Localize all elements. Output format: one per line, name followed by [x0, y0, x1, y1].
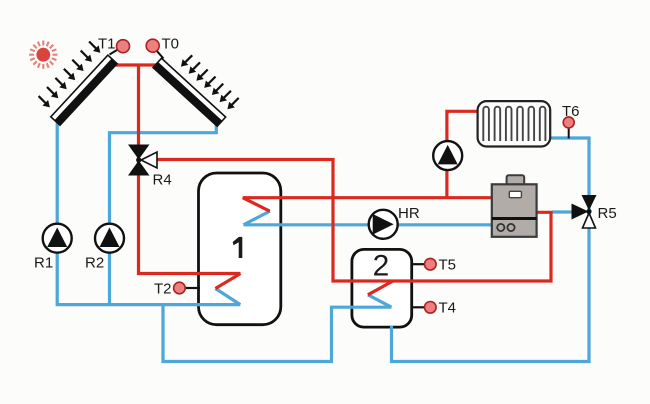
sensor T0 — [146, 36, 179, 59]
sensor T2 — [154, 281, 200, 298]
svg-text:T1: T1 — [98, 36, 116, 53]
pump R2 — [85, 224, 124, 272]
svg-text:T6: T6 — [562, 103, 580, 120]
svg-text:R5: R5 — [598, 205, 617, 222]
wire: red boiler supply to tank1 top coil — [243, 196, 492, 199]
wire: blue pipe right collector to pump R2 — [110, 122, 217, 305]
svg-text:T5: T5 — [439, 257, 457, 274]
valve R4 — [128, 145, 172, 189]
tank 1 top coil blue diagonal — [244, 211, 270, 225]
boiler — [492, 175, 537, 237]
solar collector right — [153, 58, 226, 126]
svg-text:2: 2 — [373, 250, 390, 283]
tank 2 — [352, 249, 412, 327]
valve R5 — [572, 195, 617, 228]
radiator pump — [433, 141, 462, 170]
svg-text:R1: R1 — [34, 255, 53, 272]
svg-text:HR: HR — [398, 205, 420, 222]
tank 1 bottom coil red diagonal — [215, 274, 240, 289]
wire: red radiator branch through pump — [447, 111, 478, 197]
sensor T1 — [98, 36, 130, 55]
wire: blue tank2 coil exit to bottom main — [163, 303, 392, 362]
tank 1 bottom coil blue diagonal — [215, 289, 240, 305]
wire: red collector header — [114, 63, 162, 66]
wire: blue line tank1 coil to boiler via pump HR — [244, 223, 492, 226]
wire: blue bottom main from return to radiator return via valve R5 — [392, 138, 590, 362]
sensor T6 — [562, 103, 580, 139]
sun — [29, 41, 57, 69]
tank 2 coil blue diagonal — [368, 295, 392, 307]
tank 1 — [199, 173, 281, 325]
radiator — [478, 101, 551, 146]
pump R1 — [34, 224, 72, 272]
wire: blue pipe left collector through pump R1 to return main — [57, 119, 240, 305]
tank 2 coil red diagonal — [368, 281, 393, 295]
svg-text:R2: R2 — [85, 255, 104, 272]
sunlight arrows left collector — [36, 39, 103, 111]
wire: red solar main through valve R4 to tank1 lower coil — [139, 65, 241, 274]
svg-text:T0: T0 — [162, 36, 180, 53]
sensor T5 — [411, 257, 456, 274]
sunlight arrows right collector — [178, 52, 241, 112]
svg-text:T4: T4 — [439, 300, 457, 317]
solar collector left — [51, 55, 117, 125]
pump HR — [369, 205, 420, 239]
svg-text:R4: R4 — [153, 172, 172, 189]
svg-text:T2: T2 — [154, 281, 172, 298]
wire: red branch valve R4 to tank2 coil and boiler outlet — [156, 160, 551, 282]
sensor T4 — [411, 300, 456, 317]
tank 1 top coil red diagonal — [243, 198, 270, 212]
wire: blue stub boiler side to valve R5 — [552, 210, 573, 213]
